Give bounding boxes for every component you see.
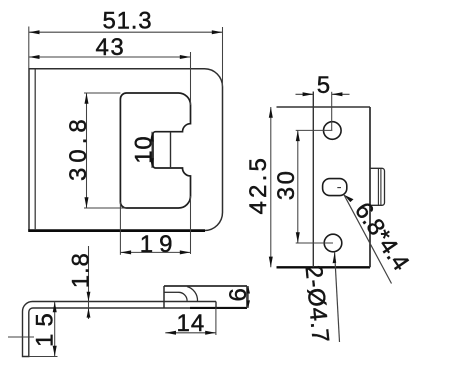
dim 5 line right part: [332, 93, 350, 95]
top hole: [324, 122, 342, 140]
arrow 30 bottom: [296, 232, 300, 243]
dim 30.8 line: [86, 93, 88, 208]
svg-text:51.3: 51.3: [103, 8, 153, 35]
main view bottom edge (thick): [28, 229, 205, 232]
dim 30 line: [297, 130, 299, 243]
arrow 14 left: [165, 331, 176, 335]
main view outer outline: [29, 69, 223, 231]
arrow 30.8 bottom: [85, 197, 89, 208]
leader 6.8*4.4: [344, 195, 392, 284]
end flange left edge (+ 14 extension below): [163, 286, 165, 335]
dim 10 line: [151, 132, 153, 168]
flange inner surface line: [164, 291, 179, 293]
dimensions bottom view: [8, 246, 248, 357]
dim 42.5 line: [270, 107, 272, 267]
arrow 1.8 lower (outside pointing up): [87, 308, 91, 318]
svg-text:42.5: 42.5: [245, 155, 272, 215]
dim 51.3 right extension: [222, 27, 224, 87]
tab inner line b: [380, 168, 382, 205]
dim 15 line: [54, 302, 56, 357]
window right lower extension (19 dim): [190, 196, 192, 254]
dim 19 left extension: [119, 202, 121, 255]
dim 1.8 line across and below: [88, 302, 90, 320]
tab inner line a: [377, 168, 379, 205]
svg-text:1.8: 1.8: [67, 252, 94, 288]
texts right view: [245, 72, 415, 344]
arrow 19 left: [120, 250, 131, 254]
right side tab: [370, 168, 385, 205]
dim 51.3 line: [29, 31, 223, 33]
svg-text:43: 43: [96, 34, 126, 61]
svg-text:15: 15: [32, 306, 59, 347]
svg-text:6: 6: [225, 288, 252, 301]
arrow 15 top: [53, 302, 57, 313]
arrow 19 right: [180, 250, 191, 254]
left tick on leg: [8, 336, 34, 338]
dim 15 bottom extension: [29, 356, 58, 358]
dim 43 right extension: [190, 52, 192, 105]
end flange rect top: [164, 285, 247, 287]
dim 30 top extension: [296, 129, 333, 131]
dim 14 line: [165, 332, 216, 334]
sheet end edge: [215, 302, 217, 308]
dim 51.3 left extension: [28, 27, 30, 69]
svg-text:30: 30: [273, 168, 300, 200]
texts main view: [65, 8, 179, 258]
arrow 15 bottom: [53, 346, 57, 357]
svg-text:14: 14: [177, 310, 206, 337]
arrow 1.8 upper (outside pointing down): [87, 292, 91, 302]
tab internal line: [170, 132, 172, 168]
arrow 30.8 top: [85, 93, 89, 104]
arrow 42.5 top: [269, 107, 273, 118]
dim 30.8 bottom extension: [84, 207, 126, 209]
dim 30.8 top extension: [84, 92, 120, 94]
slot center tick: [337, 187, 341, 189]
arrow leader slot: [344, 195, 354, 202]
arrowheads main view: [29, 30, 223, 254]
arrow 10 bottom: [150, 158, 154, 168]
arrow 14 right: [205, 331, 216, 335]
bend outer arc: [187, 287, 198, 302]
bottom hole: [324, 234, 342, 252]
arrow leader holes: [333, 253, 337, 264]
main view inner left wall line: [34, 69, 36, 230]
arrow 5 right (outside, pointing left): [332, 92, 343, 96]
dim 1.8 line above: [88, 246, 90, 302]
arrow 43 left: [29, 55, 40, 59]
arrow 5 left (outside, pointing right): [303, 92, 314, 96]
right view top edge + 42.5 top extension: [277, 106, 371, 108]
right view left edge (+5 extension above): [312, 92, 314, 268]
arrowheads right view: [269, 92, 354, 267]
dim 5 right extension down to hole center: [331, 92, 333, 131]
dim 43 line: [29, 56, 191, 58]
svg-text:19: 19: [140, 231, 179, 258]
arrow 51.3 right: [212, 30, 223, 34]
dim 19 line: [120, 251, 190, 253]
arrow 10 top: [150, 132, 154, 142]
dim 14 right extension: [215, 308, 217, 335]
inner window cutout: [120, 93, 190, 208]
bend inner arc: [179, 292, 188, 301]
leader 2-d4.7: [335, 253, 340, 343]
middle slot: [323, 179, 347, 196]
arrow 30 top: [296, 130, 300, 141]
svg-text:5: 5: [317, 72, 330, 99]
bottom edge thick segment: [190, 307, 247, 309]
right view bottom edge (thick) + 42.5 bottom extension: [277, 266, 371, 268]
dim 6 line at right edge: [247, 286, 249, 308]
arrow 6 bottom: [246, 300, 250, 308]
dim 5 line left part: [296, 93, 314, 95]
arrow 51.3 left: [29, 30, 40, 34]
end flange right edge: [246, 286, 248, 308]
arrow 6 top: [246, 286, 250, 294]
svg-text:30.8: 30.8: [65, 114, 92, 181]
svg-text:10: 10: [131, 136, 158, 164]
arrowheads bottom view: [53, 286, 250, 357]
right view right edge: [369, 107, 371, 267]
arrow 42.5 bottom: [269, 257, 273, 268]
texts bottom view: [32, 252, 252, 347]
dimensions right view: [271, 92, 392, 342]
arrow 43 right: [180, 55, 191, 59]
L profile outline: [23, 302, 217, 357]
dim 30 bottom extension: [296, 242, 333, 244]
